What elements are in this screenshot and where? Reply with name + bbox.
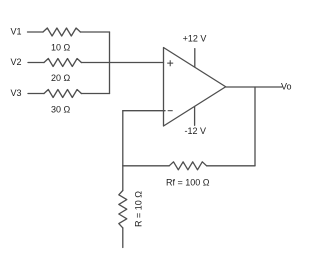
resistor R 10ohm vertical [119,191,127,228]
wire feedback left segment [123,165,169,167]
wire V1 to bus [80,31,109,33]
wire output [226,86,282,88]
resistor Rf 100ohm [169,162,206,170]
wire V3 to bus [81,93,109,95]
op-amp minus sign [168,110,173,112]
svg-text:20 Ω: 20 Ω [51,73,71,83]
wire output feedback drop [254,87,256,166]
svg-text:10 Ω: 10 Ω [51,42,71,52]
wire bus vertical [109,32,111,94]
op-amp plus sign [167,60,173,66]
svg-text:Vo: Vo [281,82,292,92]
wire -12V supply [194,107,196,126]
wire feedback right segment [207,165,255,167]
svg-text:V1: V1 [11,26,22,36]
svg-text:V3: V3 [11,88,22,98]
wire +12V supply [194,49,196,67]
op-amp U1 triangle [164,48,226,127]
wire inverting input [123,110,165,112]
svg-text:Rf = 100 Ω: Rf = 100 Ω [166,177,210,187]
svg-text:-12 V: -12 V [185,126,207,136]
wire below R [122,228,124,248]
svg-text:V2: V2 [11,57,22,67]
svg-text:+12 V: +12 V [183,33,207,43]
wire V2 to op-amp noninverting input [81,62,163,64]
wire V3 input [28,93,44,95]
svg-text:R = 10 Ω: R = 10 Ω [134,191,144,227]
resistor R3 30ohm [44,90,81,98]
wire V2 input [28,62,44,64]
resistor R1 10ohm [43,28,80,36]
wire V1 input [28,31,44,33]
svg-text:30 Ω: 30 Ω [51,104,71,114]
wire inverting node vertical [122,111,124,191]
resistor R2 20ohm [44,59,81,67]
